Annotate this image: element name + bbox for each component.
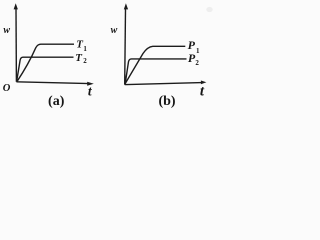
svg-text:1: 1 — [83, 45, 87, 53]
svg-text:w: w — [111, 25, 118, 36]
plot (b) x-axis arrowhead — [201, 81, 207, 85]
plot (a) curve T2 — [17, 57, 74, 81]
plot (b) y-axis arrowhead — [124, 3, 128, 9]
svg-text:(b): (b) — [158, 94, 175, 108]
svg-text:w: w — [3, 25, 10, 36]
plot (b) x-axis — [125, 83, 202, 85]
svg-text:2: 2 — [83, 57, 87, 65]
plot (b) curve P1 — [125, 46, 186, 84]
plot (a) x-axis — [16, 82, 89, 84]
svg-text:P: P — [188, 38, 196, 52]
plot (a) curve T1 — [17, 44, 74, 82]
svg-text:1: 1 — [196, 47, 200, 55]
plot (b) curve P2 — [125, 59, 186, 84]
svg-text:2: 2 — [195, 59, 199, 67]
plot (a) y-axis arrowhead — [14, 3, 18, 9]
faint scan smudge top-right — [206, 7, 212, 12]
svg-text:(a): (a) — [48, 94, 65, 108]
svg-text:O: O — [3, 83, 11, 94]
plot (b) y-axis — [124, 9, 127, 85]
plot (a) y-axis — [15, 9, 17, 82]
plot (a) x-axis arrowhead — [87, 82, 94, 86]
